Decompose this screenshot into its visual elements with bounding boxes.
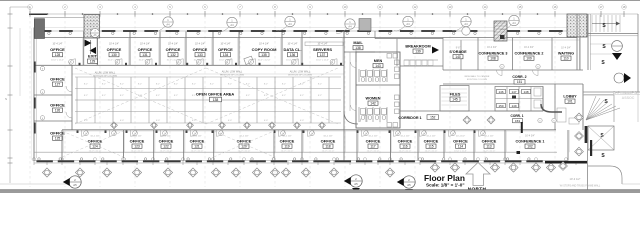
svg-text:A4: A4 — [512, 21, 516, 25]
svg-text:8'-2": 8'-2" — [84, 84, 88, 86]
svg-text:OFFICE: OFFICE — [482, 139, 497, 144]
svg-text:122: 122 — [163, 145, 169, 149]
svg-text:6'-0": 6'-0" — [120, 120, 124, 122]
svg-text:WAITING: WAITING — [558, 52, 574, 56]
svg-text:130: 130 — [111, 53, 117, 57]
svg-text:10'-0" x 11'-6": 10'-0" x 11'-6" — [160, 150, 173, 152]
svg-text:6'-0": 6'-0" — [228, 120, 232, 122]
svg-text:129: 129 — [90, 60, 96, 64]
svg-text:8'-2": 8'-2" — [156, 84, 160, 86]
svg-text:OFFICE: OFFICE — [453, 139, 468, 144]
svg-text:DATA CL.: DATA CL. — [284, 47, 302, 52]
svg-text:10'-1 1/2": 10'-1 1/2" — [323, 136, 332, 138]
svg-text:10'-1 1/2": 10'-1 1/2" — [132, 136, 141, 138]
svg-text:MEN: MEN — [374, 59, 383, 63]
svg-text:126: 126 — [55, 109, 61, 113]
svg-text:10'-1 1/2": 10'-1 1/2" — [192, 136, 201, 138]
svg-text:8'-2": 8'-2" — [228, 84, 232, 86]
svg-text:19'-3 1/2": 19'-3 1/2" — [570, 177, 581, 181]
svg-text:110: 110 — [563, 57, 568, 61]
svg-text:145: 145 — [452, 98, 458, 102]
svg-text:10'-4 1/4": 10'-4 1/4" — [195, 43, 205, 46]
svg-text:OFFICE: OFFICE — [50, 77, 65, 82]
svg-text:127: 127 — [55, 83, 61, 87]
svg-text:10'-1 1/2": 10'-1 1/2" — [90, 136, 99, 138]
svg-text:OFFICE: OFFICE — [321, 139, 336, 144]
svg-text:8'-2": 8'-2" — [210, 84, 214, 86]
svg-text:8'-2": 8'-2" — [300, 84, 304, 86]
svg-text:10'-0" x 11'-6": 10'-0" x 11'-6" — [483, 150, 496, 152]
svg-text:10'-4 1/4": 10'-4 1/4" — [317, 43, 327, 46]
svg-text:10'-4 1/4": 10'-4 1/4" — [109, 43, 119, 46]
svg-text:108: 108 — [490, 57, 496, 61]
svg-text:10'-0" x 11'-6": 10'-0" x 11'-6" — [367, 150, 380, 152]
svg-text:8'-2": 8'-2" — [264, 95, 268, 97]
svg-text:123: 123 — [134, 145, 140, 149]
svg-text:OFFICE: OFFICE — [159, 139, 174, 144]
svg-text:A5: A5 — [354, 182, 358, 186]
svg-text:A4: A4 — [464, 22, 468, 26]
svg-text:ASSOC: ASSOC — [622, 96, 635, 100]
svg-text:10'-0" x 11'-6": 10'-0" x 11'-6" — [425, 150, 438, 152]
svg-text:WITH 5X5 GF COLUMN: WITH 5X5 GF COLUMN — [93, 75, 117, 77]
svg-text:OFFICE: OFFICE — [107, 47, 122, 52]
svg-text:8'-2": 8'-2" — [246, 95, 250, 97]
svg-text:138: 138 — [355, 46, 361, 50]
svg-text:CORR. 1: CORR. 1 — [511, 114, 524, 118]
svg-text:NEW WALL TO CENTER: NEW WALL TO CENTER — [465, 75, 490, 78]
svg-text:6'-0": 6'-0" — [156, 120, 160, 122]
svg-text:6'-0": 6'-0" — [300, 120, 304, 122]
svg-text:WITH 5X5 GF COLUMN: WITH 5X5 GF COLUMN — [220, 74, 244, 76]
svg-text:135: 135 — [261, 53, 267, 57]
svg-text:6'-0": 6'-0" — [264, 120, 268, 122]
svg-text:10'-1 1/2": 10'-1 1/2" — [400, 136, 409, 138]
svg-text:151: 151 — [517, 80, 523, 84]
svg-text:8'-2": 8'-2" — [156, 95, 160, 97]
svg-text:10'-0" x 11'-6": 10'-0" x 11'-6" — [238, 150, 251, 152]
svg-text:LOBBY: LOBBY — [563, 95, 577, 99]
svg-text:OFFICE: OFFICE — [193, 47, 208, 52]
svg-text:133: 133 — [197, 53, 203, 57]
svg-text:138: 138 — [213, 98, 219, 102]
svg-text:10'-1 1/2": 10'-1 1/2" — [239, 136, 248, 138]
svg-text:136: 136 — [290, 53, 296, 57]
svg-text:10'-0" x 11'-6": 10'-0" x 11'-6" — [399, 150, 412, 152]
svg-text:A4: A4 — [288, 22, 292, 26]
svg-text:8'-2": 8'-2" — [282, 84, 286, 86]
svg-text:OFFICE: OFFICE — [138, 47, 153, 52]
svg-text:10'-0" x 12'-0": 10'-0" x 12'-0" — [258, 60, 271, 62]
svg-text:16'-4 3/4": 16'-4 3/4" — [525, 136, 535, 138]
svg-text:10'-1 1/2": 10'-1 1/2" — [282, 136, 291, 138]
svg-text:OFFICE: OFFICE — [218, 47, 233, 52]
svg-text:ALUM. LOW WALL: ALUM. LOW WALL — [222, 71, 243, 74]
svg-text:OFFICE: OFFICE — [398, 139, 413, 144]
svg-text:8'-2": 8'-2" — [246, 84, 250, 86]
svg-text:SERVERS: SERVERS — [313, 47, 332, 52]
svg-text:10'-4 1/4": 10'-4 1/4" — [220, 43, 230, 46]
svg-text:146: 146 — [498, 90, 503, 94]
svg-text:10'-0" x 11'-6": 10'-0" x 11'-6" — [131, 150, 144, 152]
svg-text:10'-0" x 12'-0": 10'-0" x 12'-0" — [316, 60, 329, 62]
svg-text:OFFICE: OFFICE — [237, 139, 252, 144]
svg-text:OFFICE: OFFICE — [50, 103, 65, 108]
svg-text:A5: A5 — [73, 183, 77, 187]
svg-text:10'-4 1/4": 10'-4 1/4" — [259, 43, 269, 46]
svg-text:153: 153 — [515, 119, 520, 123]
svg-text:MAIL: MAIL — [353, 41, 363, 45]
svg-text:COPY ROOM: COPY ROOM — [252, 47, 277, 52]
svg-text:8'-2": 8'-2" — [282, 95, 286, 97]
svg-text:OFFICE: OFFICE — [166, 47, 181, 52]
svg-text:FILES: FILES — [450, 93, 461, 97]
svg-text:A4: A4 — [230, 23, 234, 27]
svg-text:OFFICE: OFFICE — [190, 139, 205, 144]
svg-text:10'-0" x 11'-6": 10'-0" x 11'-6" — [322, 150, 335, 152]
svg-text:OPEN OFFICE AREA: OPEN OFFICE AREA — [196, 91, 235, 96]
svg-text:149: 149 — [511, 104, 516, 108]
svg-text:EXISTING COLUMN: EXISTING COLUMN — [467, 79, 488, 81]
svg-text:Scale: 1/8" = 1'-0": Scale: 1/8" = 1'-0" — [426, 183, 465, 188]
svg-text:119: 119 — [284, 145, 289, 149]
svg-text:139: 139 — [415, 50, 421, 54]
svg-text:8'-2": 8'-2" — [300, 95, 304, 97]
svg-text:WOMEN: WOMEN — [366, 97, 381, 101]
svg-text:152: 152 — [430, 116, 436, 120]
svg-text:S'ORAGE: S'ORAGE — [449, 50, 467, 54]
svg-text:143: 143 — [375, 64, 381, 68]
svg-text:142: 142 — [370, 102, 376, 106]
svg-text:A4: A4 — [406, 22, 410, 26]
svg-text:B-PHILLIPS: B-PHILLIPS — [613, 90, 637, 95]
svg-text:ALUM. LOW WALL: ALUM. LOW WALL — [290, 71, 311, 74]
svg-text:8'-2": 8'-2" — [318, 84, 322, 86]
svg-text:137: 137 — [320, 53, 326, 57]
svg-text:10'-4 3/4": 10'-4 3/4" — [561, 48, 571, 50]
svg-text:A5: A5 — [407, 183, 411, 187]
svg-text:8'-2": 8'-2" — [192, 84, 196, 86]
svg-text:10'-1 1/2": 10'-1 1/2" — [484, 136, 493, 138]
svg-text:10'-4 1/4": 10'-4 1/4" — [140, 43, 150, 46]
svg-text:CORR. 2: CORR. 2 — [512, 75, 526, 79]
svg-text:132: 132 — [170, 53, 176, 57]
svg-text:A4: A4 — [348, 24, 352, 28]
svg-text:10'-0" x 11'-6": 10'-0" x 11'-6" — [191, 150, 204, 152]
svg-text:148: 148 — [523, 90, 528, 94]
svg-text:109: 109 — [526, 57, 532, 61]
svg-text:8'-2": 8'-2" — [138, 84, 142, 86]
svg-text:BREAKROOM: BREAKROOM — [405, 45, 430, 49]
svg-text:CONFERENCE 1: CONFERENCE 1 — [516, 140, 545, 144]
svg-text:113: 113 — [486, 145, 491, 149]
svg-text:WITH 5X5 GF COLUMN: WITH 5X5 GF COLUMN — [288, 74, 312, 76]
svg-text:8'-2": 8'-2" — [102, 95, 106, 97]
svg-text:OFFICE: OFFICE — [280, 139, 295, 144]
svg-text:101: 101 — [567, 100, 573, 104]
svg-text:114: 114 — [458, 145, 463, 149]
svg-text:150: 150 — [498, 104, 503, 108]
svg-text:10'-4 1/4": 10'-4 1/4" — [52, 43, 62, 46]
svg-text:117: 117 — [370, 145, 375, 149]
svg-text:10'-0" x 11'-6": 10'-0" x 11'-6" — [454, 150, 467, 152]
svg-text:147: 147 — [511, 90, 516, 94]
svg-text:8'-2": 8'-2" — [318, 95, 322, 97]
svg-text:8'-2": 8'-2" — [84, 95, 88, 97]
svg-text:W/ STOPS AND TRUSS FRAME WALL: W/ STOPS AND TRUSS FRAME WALL — [560, 185, 601, 188]
svg-text:ALUM. LOW WALL: ALUM. LOW WALL — [95, 72, 116, 75]
svg-text:CORRIDOR 1: CORRIDOR 1 — [398, 116, 421, 120]
svg-text:6'-0": 6'-0" — [192, 120, 196, 122]
svg-text:OFFICE: OFFICE — [130, 139, 145, 144]
svg-text:10'-1 1/2": 10'-1 1/2" — [368, 136, 377, 138]
svg-text:S: S — [5, 97, 7, 101]
svg-text:OFFICE: OFFICE — [424, 139, 439, 144]
svg-text:115: 115 — [428, 145, 433, 149]
svg-text:121: 121 — [194, 145, 200, 149]
svg-text:8'-2": 8'-2" — [120, 95, 124, 97]
svg-text:118: 118 — [325, 145, 330, 149]
svg-text:CONFERENCE 3: CONFERENCE 3 — [479, 52, 508, 56]
svg-text:10'-0" x 12'-0": 10'-0" x 12'-0" — [51, 60, 64, 62]
svg-text:116: 116 — [402, 145, 407, 149]
svg-text:16'-4 3/4": 16'-4 3/4" — [524, 47, 534, 49]
svg-text:OFFICE: OFFICE — [50, 47, 65, 52]
svg-text:8'-2": 8'-2" — [174, 95, 178, 97]
svg-text:10'-1 1/2": 10'-1 1/2" — [456, 136, 465, 138]
svg-text:16'-4 3/4": 16'-4 3/4" — [487, 47, 497, 49]
svg-text:125: 125 — [55, 137, 61, 141]
svg-text:10'-4 1/4": 10'-4 1/4" — [168, 43, 178, 46]
svg-text:131: 131 — [142, 53, 148, 57]
svg-text:128: 128 — [55, 53, 61, 57]
svg-text:EXIT: EXIT — [88, 54, 97, 59]
svg-text:A4: A4 — [166, 22, 170, 26]
svg-text:8'-2": 8'-2" — [138, 95, 142, 97]
svg-text:140: 140 — [455, 55, 461, 59]
svg-text:8'-2": 8'-2" — [102, 84, 106, 86]
svg-text:10'-0" x 11'-6": 10'-0" x 11'-6" — [281, 150, 294, 152]
svg-text:10'-1 1/2": 10'-1 1/2" — [426, 136, 435, 138]
svg-text:10'-4 1/4": 10'-4 1/4" — [287, 43, 297, 46]
svg-text:134: 134 — [223, 53, 229, 57]
svg-text:8'-2": 8'-2" — [264, 84, 268, 86]
svg-text:OFFICE: OFFICE — [366, 139, 381, 144]
svg-text:8'-2": 8'-2" — [120, 84, 124, 86]
svg-text:CONFERENCE 2: CONFERENCE 2 — [515, 52, 544, 56]
svg-text:8'-2": 8'-2" — [174, 84, 178, 86]
svg-text:102: 102 — [527, 145, 533, 149]
svg-text:Floor Plan: Floor Plan — [424, 173, 465, 183]
svg-text:10'-0" x 11'-6": 10'-0" x 11'-6" — [89, 150, 102, 152]
svg-text:6'-0": 6'-0" — [84, 120, 88, 122]
